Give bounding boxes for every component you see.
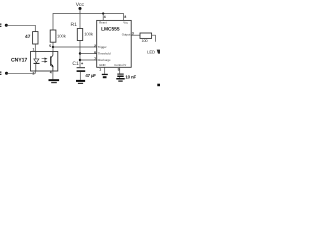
svg-text:47 µF: 47 µF bbox=[85, 73, 96, 78]
wire to LED bbox=[152, 35, 156, 42]
wire top rail bbox=[53, 14, 124, 31]
svg-text:47: 47 bbox=[25, 34, 31, 40]
ground (IC GND) bbox=[102, 74, 108, 75]
resistor R1 100k bbox=[77, 29, 82, 41]
wire input top bbox=[6, 25, 35, 31]
terminal T2 (input -) bbox=[0, 72, 1, 73]
svg-text:Control V: Control V bbox=[114, 63, 126, 67]
svg-text:10 nF: 10 nF bbox=[125, 75, 136, 80]
resistor R2 100 bbox=[140, 33, 152, 38]
Vcc terminal dot bbox=[79, 7, 82, 10]
svg-text:4: 4 bbox=[50, 71, 52, 75]
wire opto pin4 to ground bbox=[52, 71, 54, 79]
ground (LED, clipped) bbox=[157, 84, 160, 87]
wire GND stub bbox=[104, 67, 106, 74]
wire control stub bbox=[119, 67, 121, 73]
wire R1 bottom down to C1 bbox=[79, 41, 81, 68]
wire C2 to ground bbox=[119, 77, 121, 78]
wire threshold to IC pin6 bbox=[80, 53, 97, 55]
phototransistor inside opto bbox=[51, 52, 53, 72]
svg-text:Threshold: Threshold bbox=[98, 51, 111, 55]
svg-text:100k: 100k bbox=[57, 33, 67, 38]
svg-text:C1: C1 bbox=[72, 61, 79, 67]
svg-text:6: 6 bbox=[94, 50, 96, 54]
op IC U1 LMC555 box bbox=[97, 20, 132, 67]
ground (C2) bbox=[116, 78, 124, 80]
polarity + mark C1 bbox=[81, 62, 83, 65]
node threshold junction bbox=[79, 52, 81, 54]
svg-text:1: 1 bbox=[33, 47, 35, 51]
svg-text:LED: LED bbox=[147, 50, 155, 55]
svg-text:100: 100 bbox=[142, 39, 148, 43]
LED D1 (clipped) bbox=[157, 50, 160, 54]
wire Ra bottom to junction bbox=[52, 42, 54, 47]
node rail/reset junction bbox=[102, 12, 104, 14]
wire discharge to IC pin7 bbox=[80, 59, 97, 61]
svg-text:7: 7 bbox=[94, 57, 96, 61]
ground (opto emitter) bbox=[49, 79, 60, 81]
ground (C1) bbox=[76, 80, 85, 82]
wire junction to opto pin5 bbox=[52, 47, 54, 52]
svg-text:R1: R1 bbox=[71, 22, 78, 28]
node discharge junction bbox=[79, 59, 81, 61]
svg-text:CNY17: CNY17 bbox=[11, 58, 27, 64]
svg-text:5: 5 bbox=[49, 44, 51, 48]
capacitor C1 47uF bbox=[77, 67, 85, 68]
resistor 47 bbox=[33, 32, 38, 44]
svg-text:Reset: Reset bbox=[99, 21, 107, 25]
resistor Ra 100k bbox=[50, 30, 56, 42]
svg-text:4: 4 bbox=[104, 15, 106, 19]
svg-text:GND: GND bbox=[99, 63, 105, 67]
svg-text:Vcc: Vcc bbox=[76, 2, 85, 8]
svg-text:2: 2 bbox=[94, 44, 96, 48]
svg-text:LMC555: LMC555 bbox=[101, 27, 120, 33]
wire C1 to ground bbox=[79, 72, 81, 80]
light arrows bbox=[42, 58, 47, 62]
svg-text:5: 5 bbox=[118, 68, 120, 72]
wire resistor to opto pin1 bbox=[34, 44, 36, 52]
wire input bottom bbox=[7, 71, 36, 73]
wire reset stub bbox=[102, 14, 104, 21]
svg-text:100k: 100k bbox=[84, 32, 94, 37]
wire rail to R1 bbox=[79, 14, 81, 29]
LED inside opto bbox=[35, 52, 37, 72]
wire output bbox=[131, 34, 140, 36]
optocoupler U2 CNY17 box bbox=[31, 52, 58, 72]
svg-text:Output: Output bbox=[122, 32, 131, 36]
node junction trigger bbox=[52, 46, 54, 48]
svg-text:Vcc: Vcc bbox=[123, 21, 128, 25]
svg-text:8: 8 bbox=[124, 15, 126, 19]
capacitor C2 10nF bbox=[117, 74, 123, 75]
svg-text:Trigger: Trigger bbox=[98, 45, 107, 49]
wire trigger (junction to IC pin2) bbox=[53, 46, 97, 48]
wire Vcc stub bbox=[79, 9, 81, 14]
svg-text:Discharge: Discharge bbox=[98, 58, 111, 62]
terminal T1 (input +) bbox=[0, 24, 1, 25]
svg-text:1: 1 bbox=[99, 68, 101, 72]
